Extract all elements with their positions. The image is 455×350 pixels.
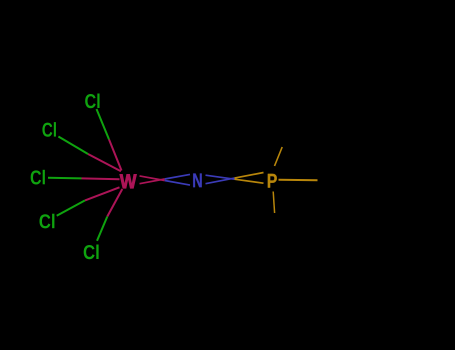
wire W-Cl2 bond (upper-left): [58, 137, 121, 172]
atom Cl5 chlorine (bottom): [84, 245, 99, 260]
atom Cl2 chlorine (upper-left): [42, 122, 56, 137]
atom Cl4 chlorine (lower-left): [39, 214, 54, 229]
wire P-phenyl bond (up): [275, 147, 283, 166]
wire P-phenyl bond (right): [279, 179, 318, 182]
wire N=P double bond: [206, 173, 264, 184]
atom W (tungsten): [120, 174, 137, 188]
atom P (phosphorus): [268, 174, 277, 188]
atom Cl1 chlorine (top): [85, 94, 99, 109]
wire P-phenyl bond (down): [273, 192, 274, 214]
atom N (nitrogen): [193, 173, 202, 187]
wire W-Cl4 bond (lower-left): [57, 187, 120, 216]
atom Cl3 chlorine (left): [31, 170, 45, 185]
wire W=N double bond: [140, 174, 191, 185]
wire W-Cl5 bond (bottom): [97, 189, 122, 241]
wire W-Cl1 bond (top): [97, 109, 122, 171]
wire W-Cl3 bond (left, horizontal): [48, 178, 120, 180]
